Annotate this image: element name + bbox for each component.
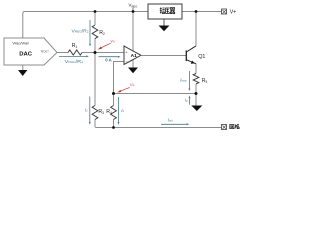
svg-text:I1: I1 <box>85 107 88 112</box>
svg-text:0 A: 0 A <box>105 57 112 62</box>
svg-text:V+: V+ <box>230 9 237 15</box>
resistor R5 <box>193 74 199 84</box>
wire Q1 collector to top rail <box>195 12 197 46</box>
transistor Q1 <box>185 51 187 62</box>
junction op-amp supply rail <box>132 10 135 13</box>
terminal loop (回路) <box>222 125 227 130</box>
red annotation VA at node A bottom <box>117 88 129 93</box>
wire top rail from DAC feedback corner to regulator <box>23 12 148 39</box>
red annotation VA at node A top <box>98 43 111 49</box>
svg-text:R4: R4 <box>106 109 112 115</box>
wire op-amp inverting input to node <box>114 62 125 94</box>
node A junction R1 R2 R3 <box>94 51 97 54</box>
blue current arrow I2 <box>118 97 120 125</box>
blue current arrow Iout along bottom rail <box>161 123 189 125</box>
blue current arrow I1 <box>89 97 91 125</box>
svg-text:R3: R3 <box>98 109 104 115</box>
wire emitter column through R5 to ground <box>195 64 197 106</box>
wire feedback line node A to emitter node <box>114 93 197 95</box>
wire R2 bottom to node A and down to R3 <box>95 39 97 128</box>
DAC block <box>4 38 57 65</box>
op-amp A1 <box>124 46 141 65</box>
wire op-amp output to Q1 base <box>141 55 186 57</box>
wire R2 column upper <box>94 12 96 26</box>
blue current arrow Iloop through R5 <box>188 71 190 91</box>
regulator box <box>148 4 182 19</box>
wire rail from regulator to V+ terminal <box>182 11 222 13</box>
svg-text:A1: A1 <box>131 53 138 59</box>
ground below regulator <box>159 26 170 32</box>
resistor R4 <box>111 106 117 120</box>
node VREG tick <box>132 8 134 12</box>
wire R4 column <box>113 94 115 128</box>
resistor R3 <box>92 106 98 120</box>
svg-text:R5: R5 <box>202 78 208 84</box>
wire DAC ground stem <box>22 65 24 70</box>
resistor R1 <box>68 50 82 55</box>
junction R4 bottom rail <box>112 126 115 129</box>
junction R2 top rail <box>94 10 97 13</box>
blue current arrow Iq up into node <box>189 96 191 105</box>
text 稳压器 (drawn) <box>160 7 175 13</box>
wire op-amp ground stem <box>132 60 134 68</box>
ground below DAC <box>18 70 27 76</box>
svg-text:I2: I2 <box>121 108 124 113</box>
wire DAC output to R1 and op-amp non-inverting input <box>57 52 124 54</box>
ground below R5 <box>191 106 202 112</box>
svg-text:Q1: Q1 <box>198 54 205 60</box>
terminal V+ <box>222 9 227 14</box>
wire op-amp supply column <box>132 12 134 51</box>
blue current arrow VDAC/R1 under R1 <box>59 55 89 57</box>
junction R5 bottom feedback <box>195 92 198 95</box>
svg-text:DAC: DAC <box>19 51 33 57</box>
resistor R2 <box>92 25 98 39</box>
junction Q1 collector rail <box>195 10 198 13</box>
svg-text:R2: R2 <box>99 30 105 36</box>
blue arrow 0A into op-amp <box>99 56 121 58</box>
ground below op-amp <box>128 68 138 74</box>
blue current arrow VREG/R2 through R2 <box>89 20 91 47</box>
junction inverting input R4 feedback <box>112 92 115 95</box>
wire regulator ground stem <box>163 19 165 26</box>
wire bottom rail to loop terminal <box>96 127 222 129</box>
